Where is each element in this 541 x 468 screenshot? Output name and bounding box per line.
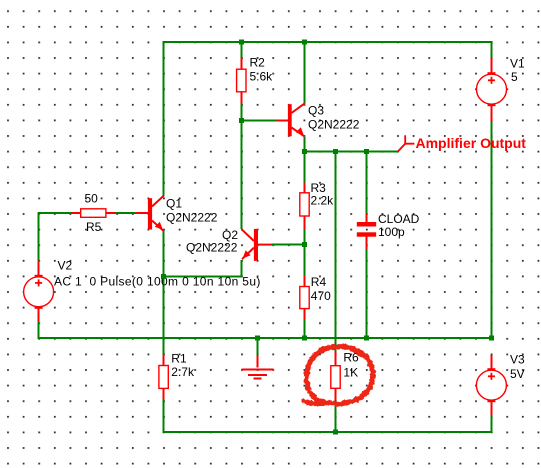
wire node to Q3 base [241,119,276,121]
svg-text:V3: V3 [510,353,525,367]
junction lower rail / R4 [302,336,307,341]
svg-text:Q2N2222: Q2N2222 [308,118,360,132]
junction lower rail / CLOAD [364,336,369,341]
wire R6 bottom [335,400,337,431]
wire R4 lower red lead [304,309,306,320]
resistor R4 470 [300,275,331,309]
wire Q2 base node to R4 top [304,245,306,276]
wire emitter node to R1 [163,276,165,354]
junction top rail / Q3 collector [302,40,307,45]
transistor Q3 Q2N2222 [288,103,360,136]
wire R2 upper red lead [240,58,242,69]
wire V1 top [491,41,493,58]
resistor R3 2.2k [300,181,334,216]
svg-text:2.2k: 2.2k [311,194,335,208]
wire Q3 emitter to output node [304,137,306,152]
wire R2 lower red lead [240,92,242,104]
junction output / Q3 emitter [302,149,307,154]
wire CLOAD lower red lead [366,237,368,249]
wire R5 left red lead [71,212,81,214]
transistor Q2 Q2N2222 (mirrored) [186,228,272,261]
wire V2 top [38,212,40,261]
svg-text:50: 50 [85,192,99,206]
junction lower rail / V3 [489,336,494,341]
wire V2 upper red lead [38,261,40,277]
svg-text:1K: 1K [343,366,358,380]
voltage source V2 AC [24,259,261,308]
wire R6 upper red lead [335,352,337,366]
junction bottom rail / R6 [333,429,338,434]
wire CLOAD top [366,152,368,214]
wire node down to Q2 collector [240,120,242,229]
svg-text:5.6k: 5.6k [250,70,274,84]
wire lower middle rail [38,337,492,339]
resistor R2 5.6k [237,56,274,92]
wire CLOAD bottom [366,249,368,338]
svg-text:V2: V2 [58,259,73,273]
svg-text:Q1: Q1 [166,197,182,211]
wire output node down to R6 [335,152,337,352]
wire R3 lower red lead [304,216,306,229]
wire V1 lower red lead [491,105,493,121]
junction top rail / R2 [239,40,244,45]
junction output / CLOAD [364,149,369,154]
wire ground stem [256,338,258,355]
wire V1 bottom vertical [491,121,493,338]
wire V3 lower red lead [491,401,493,416]
svg-text:AC 1 0 Pulse(0 100m 0 10n 10n: AC 1 0 Pulse(0 100m 0 10n 10n 5u) [54,275,261,289]
wire R3 top [304,152,306,183]
wire V2 lower red lead [38,307,40,322]
svg-text:100p: 100p [378,225,405,239]
wire CLOAD upper red lead [366,214,368,222]
wire R6 lower red lead [335,388,337,400]
junction output / R6 branch [333,149,338,154]
junction R2 / Q3 base [239,118,244,123]
wire R2 bottom to node [240,104,242,121]
svg-text:R4: R4 [311,275,327,289]
wire Q1 base red lead [136,212,148,214]
wire output rail [305,151,399,153]
wire R4 upper red lead [304,275,306,286]
resistor R6 1K [331,351,359,389]
svg-text:R1: R1 [171,352,187,366]
junction lower rail / ground [255,336,260,341]
wire Q1 emitter to Q2 emitter [164,275,243,277]
svg-text:R5: R5 [86,220,102,234]
ground [241,369,273,378]
wire R4 bottom [304,320,306,338]
svg-text:5: 5 [511,70,518,84]
voltage source V1 5 [477,57,526,106]
resistor R1 2.7k [159,352,195,389]
resistor R5 50 [81,192,106,235]
svg-text:470: 470 [311,289,331,303]
wire R5 right red lead [106,212,115,214]
wire left vertical to Q1 collector [163,41,165,196]
wire Q3 collector to top rail [304,41,306,104]
wire Q2 emitter vertical [240,260,242,277]
node output label flag [398,135,414,151]
junction Q1 emitter / R1 [161,274,166,279]
svg-text:5V: 5V [510,367,525,381]
junction Q2 base / R3 R4 [302,242,307,247]
wire R1 bottom [163,399,165,432]
svg-text:V1: V1 [510,57,525,71]
wire Q1 emitter down [163,230,165,276]
wire V2 bottom [38,321,40,339]
svg-text:Q2N2222: Q2N2222 [186,241,238,255]
wire V3 bottom [491,416,493,433]
wire R1 upper red lead [163,355,165,366]
svg-text:Q2N2222: Q2N2222 [166,211,218,225]
wire V2 to R5 [38,212,71,214]
wire R1 lower red lead [163,388,165,399]
wire ground red stem [256,355,258,367]
wire top rail [163,41,493,43]
svg-text:Amplifier Output: Amplifier Output [416,135,527,151]
annotation hand-drawn circle around R6 [304,347,373,404]
svg-text:Q3: Q3 [308,104,324,118]
wire R3 bottom to Q2 base node [304,229,306,245]
wire R5 to Q1 base [115,212,136,214]
wire V3 upper red lead [491,355,493,370]
capacitor CLOAD 100p [357,212,420,239]
svg-text:2.7k: 2.7k [171,365,195,379]
wire R3 upper red lead [304,183,306,193]
transistor Q1 Q2N2222 [148,196,218,231]
wire bottom rail [163,431,493,433]
wire R2 top stub [240,42,242,58]
voltage source V3 5V [476,353,525,402]
wire Q2 base [272,244,305,246]
wire Q3 base red lead [277,119,289,121]
svg-text:R2: R2 [250,56,266,70]
wire V1 upper red lead [491,58,493,74]
